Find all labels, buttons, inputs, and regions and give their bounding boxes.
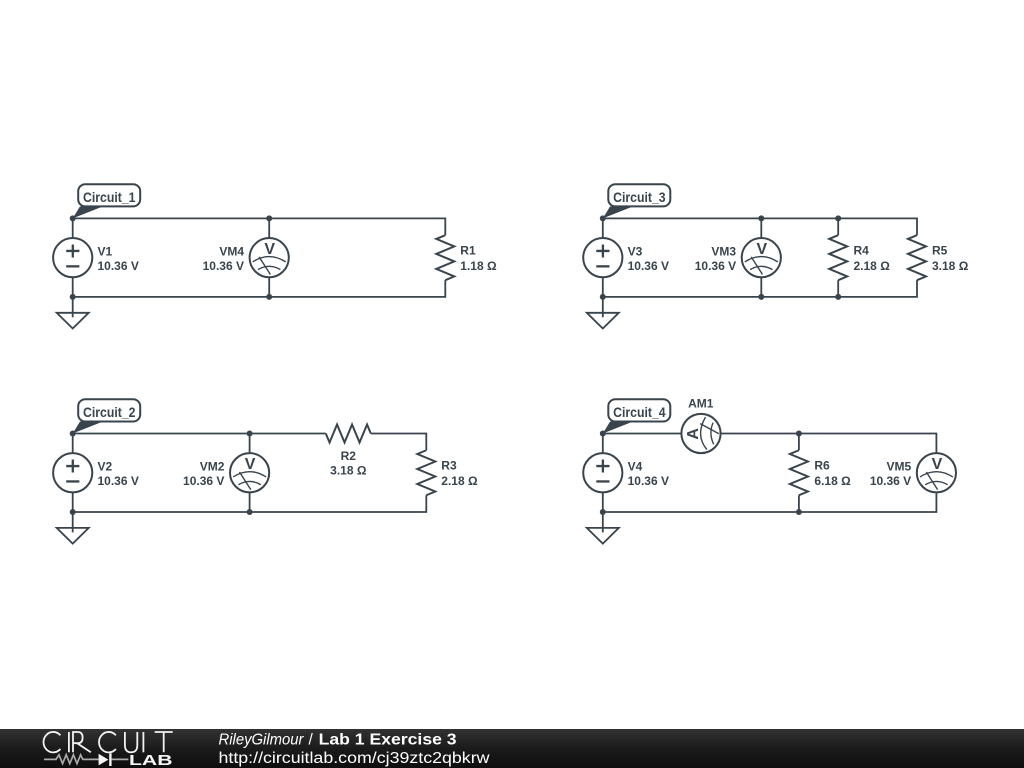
svg-text:6.18 Ω: 6.18 Ω xyxy=(814,474,851,488)
wire bottom rail circuit 2 xyxy=(73,495,427,512)
svg-text:R4: R4 xyxy=(854,243,870,257)
ground circuit 1 xyxy=(57,297,89,329)
svg-text:Circuit_3: Circuit_3 xyxy=(613,190,666,205)
svg-text:V: V xyxy=(264,241,275,258)
svg-text:V2: V2 xyxy=(98,460,113,474)
svg-text:RileyGilmour: RileyGilmour xyxy=(219,731,305,748)
resistor R5 xyxy=(908,235,926,280)
svg-text:VM3: VM3 xyxy=(711,244,736,258)
resistor R3 xyxy=(417,450,435,495)
svg-text:3.18 Ω: 3.18 Ω xyxy=(932,259,969,273)
svg-text:2.18 Ω: 2.18 Ω xyxy=(854,259,891,273)
svg-text:10.36 V: 10.36 V xyxy=(628,474,669,488)
wire V3 bottom stub xyxy=(602,277,604,297)
voltage source V3 xyxy=(583,238,622,277)
junction node dots circuit 4 xyxy=(600,431,802,516)
wire top rail circuit 4 right of AM1 xyxy=(721,434,937,454)
label VM3 value 10.36 V xyxy=(695,244,737,273)
svg-text:V: V xyxy=(245,456,256,473)
svg-text:10.36 V: 10.36 V xyxy=(870,474,911,488)
wire VM2 bottom stub xyxy=(249,492,251,512)
ammeter AM1 xyxy=(681,414,720,453)
junction node dots circuit 1 xyxy=(70,215,273,300)
wire V1 bottom stub xyxy=(72,277,74,297)
wire top rail circuit 2 left of R2 xyxy=(73,433,326,435)
wire bottom rail circuit 3 xyxy=(603,280,917,297)
resistor R1 xyxy=(436,235,454,280)
svg-text:10.36 V: 10.36 V xyxy=(695,259,736,273)
wire R4 bottom stub xyxy=(837,280,839,297)
svg-text:V4: V4 xyxy=(628,460,643,474)
wire VM4 bottom stub xyxy=(268,277,270,297)
wire V3 top stub xyxy=(602,218,604,238)
voltmeter VM2 xyxy=(230,453,269,492)
svg-text:10.36 V: 10.36 V xyxy=(183,474,224,488)
label V2 value 10.36 V xyxy=(98,460,139,489)
voltmeter VM5 xyxy=(917,453,956,492)
svg-text:10.36 V: 10.36 V xyxy=(98,259,139,273)
svg-text:R5: R5 xyxy=(932,243,948,257)
wire top rail circuit 4 left of AM1 xyxy=(603,433,682,435)
node label Circuit_4 xyxy=(603,399,671,433)
svg-text:3.18 Ω: 3.18 Ω xyxy=(330,464,367,478)
svg-text:http://circuitlab.com/cj39ztc2: http://circuitlab.com/cj39ztc2qbkrw xyxy=(219,750,491,767)
svg-text:10.36 V: 10.36 V xyxy=(628,259,669,273)
wire bottom rail circuit 4 xyxy=(603,492,937,512)
label VM4 value 10.36 V xyxy=(203,244,245,273)
svg-text:10.36 V: 10.36 V xyxy=(98,474,139,488)
wire R6 bottom stub xyxy=(798,495,800,512)
wire top rail circuit 1 xyxy=(73,218,446,235)
svg-text:Lab 1 Exercise 3: Lab 1 Exercise 3 xyxy=(319,731,457,748)
label V4 value 10.36 V xyxy=(628,460,669,489)
svg-text:VM2: VM2 xyxy=(200,460,225,474)
label R1 value 1.18 Ω xyxy=(460,243,497,273)
wire V4 bottom stub xyxy=(602,492,604,512)
wire VM3 bottom stub xyxy=(760,277,762,297)
svg-text:2.18 Ω: 2.18 Ω xyxy=(441,474,478,488)
resistor R2 xyxy=(326,425,371,443)
resistor R6 xyxy=(790,450,808,495)
svg-text:VM4: VM4 xyxy=(219,244,244,258)
CircuitLab logo diode xyxy=(99,753,112,766)
wire R6 top stub xyxy=(798,434,800,451)
node label Circuit_3 xyxy=(603,184,671,218)
svg-text:R6: R6 xyxy=(814,459,830,473)
voltmeter VM4 xyxy=(250,238,289,277)
ground circuit 3 xyxy=(587,297,619,329)
ground circuit 2 xyxy=(57,512,89,544)
junction node dots circuit 2 xyxy=(70,431,253,516)
svg-text:1.18 Ω: 1.18 Ω xyxy=(460,259,497,273)
wire VM2 top stub xyxy=(249,434,251,454)
svg-text:R2: R2 xyxy=(341,449,357,463)
svg-text:VM5: VM5 xyxy=(887,460,912,474)
svg-text:A: A xyxy=(685,428,702,440)
wire V2 top stub xyxy=(72,434,74,454)
voltage source V1 xyxy=(53,238,92,277)
voltmeter VM3 xyxy=(742,238,781,277)
svg-text:V1: V1 xyxy=(98,244,113,258)
junction node dots circuit 3 xyxy=(600,215,841,300)
wire V1 top stub xyxy=(72,218,74,238)
svg-text:AM1: AM1 xyxy=(688,396,714,410)
label R5 value 3.18 Ω xyxy=(932,243,969,273)
voltage source V2 xyxy=(53,453,92,492)
label VM5 value 10.36 V xyxy=(870,460,912,489)
wire top rail circuit 2 right of R2 xyxy=(371,434,427,451)
node label Circuit_1 xyxy=(73,184,141,218)
wire top rail circuit 3 xyxy=(603,218,917,235)
svg-text:Circuit_4: Circuit_4 xyxy=(613,405,666,420)
label R6 value 6.18 Ω xyxy=(814,459,851,489)
label R3 value 2.18 Ω xyxy=(441,459,478,489)
wire VM3 top stub xyxy=(760,218,762,238)
wire VM4 top stub xyxy=(268,218,270,238)
wire R4 top stub xyxy=(837,218,839,235)
svg-text:Circuit_1: Circuit_1 xyxy=(83,190,136,205)
svg-text:V: V xyxy=(756,241,767,258)
svg-text:/: / xyxy=(309,731,314,748)
label VM2 value 10.36 V xyxy=(183,460,225,489)
CircuitLab logo wordmark CIRCUIT xyxy=(44,732,173,752)
label R4 value 2.18 Ω xyxy=(854,243,891,273)
svg-text:Circuit_2: Circuit_2 xyxy=(83,405,136,420)
svg-text:V3: V3 xyxy=(628,244,643,258)
CircuitLab logo resistor-diode line xyxy=(44,755,128,764)
svg-text:10.36 V: 10.36 V xyxy=(203,259,244,273)
wire V2 bottom stub xyxy=(72,492,74,512)
svg-text:V: V xyxy=(932,456,943,473)
node label Circuit_2 xyxy=(73,399,141,433)
wire V4 top stub xyxy=(602,434,604,454)
wire bottom rail circuit 1 xyxy=(73,280,446,297)
label R2 value 3.18 Ω xyxy=(330,449,367,478)
label V3 value 10.36 V xyxy=(628,244,669,273)
svg-text:R3: R3 xyxy=(441,459,457,473)
footer title text xyxy=(219,731,458,748)
svg-text:R1: R1 xyxy=(460,243,476,257)
resistor R4 xyxy=(829,235,847,280)
svg-text:LAB: LAB xyxy=(129,752,173,768)
ground circuit 4 xyxy=(587,512,619,544)
label V1 value 10.36 V xyxy=(98,244,139,273)
voltage source V4 xyxy=(583,453,622,492)
